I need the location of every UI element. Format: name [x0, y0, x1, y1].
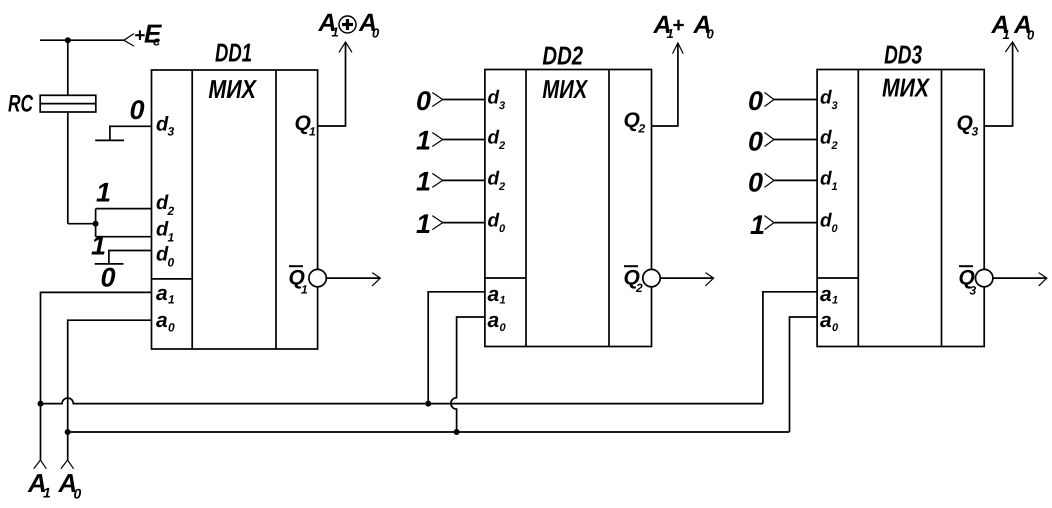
pin label a1 DD2 — [488, 283, 506, 307]
svg-text:0: 0 — [1027, 28, 1035, 43]
label MUX (МИХ) DD3 — [882, 72, 930, 102]
pin label d1 DD3 — [820, 168, 838, 193]
wire d2-d1 connector — [95, 209, 97, 237]
wire d1 input DD1 — [96, 236, 152, 238]
svg-text:1: 1 — [500, 295, 506, 307]
wire Q2 output up — [652, 43, 678, 126]
arrowhead Q1 up — [339, 42, 352, 52]
pin label a0 DD3 — [820, 309, 839, 334]
wire a1 DD3 from bus1 — [763, 292, 817, 404]
svg-text:1: 1 — [301, 283, 308, 297]
svg-text:1: 1 — [168, 293, 175, 307]
svg-text:RC: RC — [8, 91, 33, 118]
label 1 at d1 DD2 — [416, 167, 431, 197]
label 0 at d3 DD1 — [130, 95, 145, 125]
wire d2 DD3 — [774, 139, 817, 141]
svg-text:2: 2 — [638, 122, 646, 136]
wire d3 DD3 — [774, 99, 817, 101]
svg-text:2: 2 — [498, 140, 505, 152]
label +Ec — [134, 19, 162, 49]
svg-text:1: 1 — [416, 126, 431, 156]
svg-text:c: c — [153, 34, 161, 49]
svg-text:d: d — [820, 88, 832, 109]
input terminal 1 at d1 DD2 — [432, 173, 442, 187]
label 1 at d0 DD1 — [91, 230, 106, 260]
bus wire 1 (A1 line) with hop over A0 vertical — [41, 398, 763, 404]
svg-text:0: 0 — [168, 256, 175, 270]
svg-text:МИХ: МИХ — [542, 74, 588, 104]
wire a1 DD1 to A1 — [41, 292, 152, 460]
block DD2 — [485, 70, 652, 347]
label DD1 — [215, 37, 252, 67]
svg-text:1: 1 — [309, 125, 316, 139]
pin label a1 DD3 — [820, 283, 838, 307]
svg-text:a: a — [820, 283, 832, 306]
input terminal 0 at d3 DD3 — [765, 93, 775, 107]
arrowhead Q3 up — [1005, 42, 1018, 52]
svg-text:1: 1 — [91, 230, 106, 260]
pin label d2b DD2 — [488, 168, 506, 193]
svg-text:2: 2 — [498, 181, 505, 193]
svg-text:МИХ: МИХ — [208, 74, 257, 104]
svg-text:d: d — [820, 168, 832, 189]
svg-text:1: 1 — [750, 210, 765, 240]
wire +Ec supply rail — [40, 39, 124, 41]
arrowhead nQ3 — [1039, 273, 1047, 286]
svg-text:1: 1 — [1003, 27, 1010, 42]
label MUX (МИХ) DD2 — [542, 74, 588, 104]
svg-text:0: 0 — [748, 168, 763, 198]
svg-text:d: d — [488, 128, 500, 149]
label A1 xor A0 — [318, 9, 381, 41]
svg-text:1: 1 — [43, 485, 51, 501]
wire a0 DD1 to A0 — [68, 320, 152, 460]
svg-text:DD2: DD2 — [542, 41, 583, 71]
junction dot bus2-A0 — [65, 429, 71, 435]
label 1 at d2 DD2 — [416, 126, 431, 156]
pin label nQ2 DD2 with overbar — [624, 267, 644, 296]
svg-text:0: 0 — [707, 27, 715, 42]
wire d1 DD2 — [443, 179, 485, 181]
block DD1 — [152, 70, 318, 349]
svg-text:1: 1 — [332, 25, 339, 40]
label A1 + A0 — [653, 11, 715, 42]
svg-text:a: a — [820, 309, 832, 332]
wire d2 input DD1 — [96, 208, 152, 210]
delay element RC — [40, 95, 96, 112]
wire d3 input DD1 with step — [95, 126, 151, 140]
input terminal 0 at d2 DD3 — [765, 133, 775, 147]
bubble nQ1 — [309, 269, 326, 286]
svg-text:3: 3 — [970, 284, 977, 298]
svg-text:+: + — [672, 14, 684, 37]
svg-text:d: d — [820, 211, 832, 232]
pin label a0 DD1 — [156, 309, 175, 335]
wire Q1 output up — [318, 42, 346, 126]
svg-text:a: a — [488, 309, 500, 332]
bubble nQ3 — [976, 269, 993, 286]
svg-text:0: 0 — [832, 223, 839, 235]
junction dot a0 DD2 on bus2 — [454, 429, 460, 435]
svg-text:d: d — [488, 211, 500, 232]
terminal A0 — [61, 460, 74, 469]
pin label d1 DD1 — [156, 219, 175, 245]
label DD3 — [884, 39, 922, 69]
terminal A1 — [34, 460, 47, 469]
label 1 at d0 DD3 — [750, 210, 765, 240]
wire RC top — [67, 40, 69, 95]
svg-text:3: 3 — [832, 100, 838, 112]
svg-text:2: 2 — [635, 281, 643, 295]
xor symbol circle-plus — [339, 16, 356, 33]
label A1 A0 — [991, 11, 1036, 43]
junction dot a1 DD2 on bus1 — [425, 401, 431, 407]
input terminal 0 at d3 DD2 — [432, 93, 442, 107]
wire d3 DD2 — [443, 99, 485, 101]
svg-text:1: 1 — [832, 295, 838, 307]
arrowhead nQ2 — [706, 273, 714, 286]
svg-text:d: d — [820, 128, 832, 149]
svg-text:0: 0 — [130, 95, 145, 125]
svg-text:DD3: DD3 — [884, 39, 922, 69]
input terminal 1 at d2 DD2 — [432, 133, 442, 147]
label RC — [8, 91, 33, 118]
label 0 at d3 DD3 — [748, 86, 763, 116]
pin label d3 DD1 — [156, 114, 175, 139]
svg-text:0: 0 — [832, 322, 839, 334]
pin label d3 DD3 — [820, 88, 838, 113]
svg-text:1: 1 — [416, 209, 431, 239]
svg-text:Q: Q — [957, 112, 973, 135]
pin label d0 DD3 — [820, 211, 839, 235]
pin label a1 DD1 — [156, 282, 175, 307]
svg-text:3: 3 — [499, 100, 505, 112]
svg-text:0: 0 — [416, 86, 431, 116]
input terminal 1 at d0 DD2 — [432, 216, 442, 230]
svg-text:0: 0 — [168, 321, 175, 335]
label 1 at d0 DD2 — [416, 209, 431, 239]
wire d2 DD2 — [443, 139, 485, 141]
wire d0 DD3 — [774, 222, 817, 224]
svg-text:1: 1 — [96, 177, 111, 207]
label A1 — [27, 468, 51, 501]
svg-text:Q: Q — [624, 109, 640, 132]
svg-text:2: 2 — [831, 140, 838, 152]
label A0 — [58, 468, 82, 502]
svg-text:1: 1 — [168, 231, 175, 245]
label 1 at d2 DD1 — [96, 177, 111, 207]
svg-text:0: 0 — [500, 322, 507, 334]
pin label d2 DD1 — [156, 192, 175, 218]
junction dot bus1-A1 — [38, 401, 44, 407]
block DD3 — [817, 70, 984, 347]
wire a1 DD2 to bus1 — [428, 292, 485, 404]
svg-text:a: a — [156, 309, 168, 332]
svg-text:0: 0 — [372, 26, 380, 41]
label 0 at d3 DD2 — [416, 86, 431, 116]
wire a0 DD3 from bus2 — [790, 317, 818, 432]
label MUX (МИХ) DD1 — [208, 74, 257, 104]
label 0 at d1 DD3 — [748, 168, 763, 198]
pin label a0 DD2 — [488, 309, 507, 334]
svg-text:DD1: DD1 — [215, 37, 252, 67]
pin label nQ3 DD3 with overbar — [959, 267, 977, 298]
svg-text:2: 2 — [167, 204, 175, 218]
bus wire 2 (A0 line) — [68, 431, 790, 433]
arrowhead Q2 up — [673, 43, 684, 54]
svg-text:3: 3 — [168, 125, 175, 139]
svg-text:0: 0 — [748, 86, 763, 116]
wire Q3 output up — [984, 43, 1012, 126]
svg-text:d: d — [488, 88, 500, 109]
bubble nQ2 — [643, 269, 660, 286]
junction dot: rail to RC — [65, 37, 71, 43]
svg-text:a: a — [156, 282, 168, 305]
pin label d3 DD2 — [488, 88, 506, 113]
input terminal 0 at d1 DD3 — [765, 173, 775, 187]
pin label d0 DD2 — [488, 211, 507, 235]
junction dot: tie — [93, 221, 99, 227]
svg-text:1: 1 — [416, 167, 431, 197]
wire d1 DD3 — [774, 179, 817, 181]
svg-text:0: 0 — [101, 262, 116, 292]
pin label Q2 DD2 — [624, 109, 646, 136]
svg-text:0: 0 — [748, 127, 763, 157]
arrowhead nQ1 — [372, 273, 380, 286]
wire a0 DD2 to bus2 with hop over bus1 — [451, 317, 485, 432]
svg-text:1: 1 — [832, 181, 838, 193]
label DD2 — [542, 41, 583, 71]
wire d0 input DD1 with step — [95, 251, 152, 264]
pin label d0 DD1 — [156, 244, 175, 270]
wire RC bottom — [67, 112, 69, 224]
wire nQ1 output — [326, 277, 380, 279]
input terminal 1 at d0 DD3 — [765, 216, 775, 230]
svg-text:МИХ: МИХ — [882, 72, 930, 102]
pin label Q3 DD3 — [957, 112, 979, 139]
svg-text:d: d — [488, 168, 500, 189]
svg-text:0: 0 — [74, 486, 82, 502]
wire RC to d2/d1 tie — [68, 223, 96, 225]
terminal +Ec arrowhead — [124, 34, 134, 47]
svg-text:a: a — [488, 283, 500, 306]
pin label Q1 DD1 — [295, 112, 317, 139]
svg-text:3: 3 — [972, 125, 979, 139]
svg-text:0: 0 — [499, 223, 506, 235]
pin label d2 DD3 — [820, 128, 838, 153]
wire d0 DD2 — [443, 222, 485, 224]
label 0 at d0 DD1 — [101, 262, 116, 292]
pin label nQ1 DD1 with overbar — [289, 267, 309, 297]
pin label d2 DD2 — [488, 128, 506, 153]
label 0 at d2 DD3 — [748, 127, 763, 157]
wire nQ3 output — [993, 277, 1047, 279]
wire nQ2 output — [660, 277, 713, 279]
